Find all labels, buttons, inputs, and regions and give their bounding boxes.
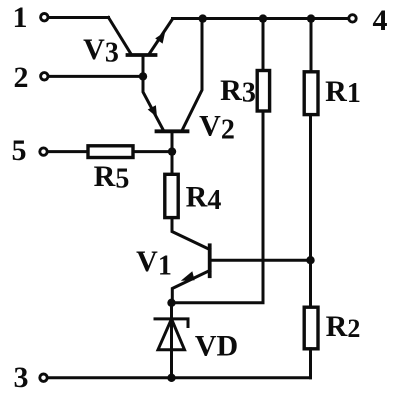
terminal 5 xyxy=(40,148,47,155)
junction dot R1 at rail xyxy=(307,14,315,22)
terminal 2 xyxy=(41,73,48,80)
svg-text:R1: R1 xyxy=(325,75,361,109)
wire rail to R3 xyxy=(262,19,265,71)
svg-text:V3: V3 xyxy=(83,33,119,69)
transistor V3 xyxy=(109,18,173,77)
junction dot node C xyxy=(168,147,176,155)
wire R1 to node B xyxy=(309,115,312,261)
wire terminal 1 to V3 collector xyxy=(50,16,109,19)
svg-text:3: 3 xyxy=(14,361,29,394)
resistor R2 xyxy=(304,307,318,349)
svg-text:VD: VD xyxy=(195,330,238,363)
resistor R5 xyxy=(88,146,133,158)
junction dot VD at bottom rail xyxy=(167,374,175,382)
wire R3 to node D xyxy=(172,111,263,303)
junction dot node A xyxy=(139,72,147,80)
wire node C to R4 xyxy=(171,152,174,175)
resistor R3 xyxy=(257,71,269,112)
wire node B to R2 xyxy=(309,260,312,307)
junction dot node D xyxy=(167,299,175,307)
terminal 1 xyxy=(41,14,48,21)
wire V1 base to node B xyxy=(212,259,311,262)
svg-text:V1: V1 xyxy=(136,245,172,282)
bottom rail wire xyxy=(49,376,311,379)
wire terminal 5 to R5 xyxy=(49,150,88,153)
wire node D through VD to bottom rail xyxy=(170,303,173,378)
top rail wire xyxy=(173,17,348,20)
svg-text:5: 5 xyxy=(12,134,27,167)
transistor V1 xyxy=(172,218,210,302)
junction dot V2 collector at rail xyxy=(199,14,207,22)
terminal 4 xyxy=(349,15,356,22)
zener diode VD xyxy=(155,319,188,350)
junction dot R3 at rail xyxy=(259,14,267,22)
svg-text:R2: R2 xyxy=(326,310,361,343)
svg-text:R5: R5 xyxy=(94,160,130,195)
resistor R4 xyxy=(165,174,178,217)
wire terminal 2 to node A xyxy=(50,75,141,78)
svg-text:R3: R3 xyxy=(220,74,256,109)
svg-text:R4: R4 xyxy=(186,181,222,217)
svg-text:2: 2 xyxy=(14,61,29,94)
svg-text:V2: V2 xyxy=(199,110,235,146)
wire rail to R1 xyxy=(310,19,313,72)
wire R2 to bottom rail xyxy=(309,349,312,378)
svg-text:1: 1 xyxy=(13,1,28,34)
resistor R1 xyxy=(304,72,318,115)
junction dot node B xyxy=(306,256,314,264)
svg-text:4: 4 xyxy=(373,4,388,37)
transistor V2 xyxy=(143,21,202,152)
wire R5 to node C xyxy=(133,150,172,153)
terminal 3 xyxy=(40,374,47,381)
